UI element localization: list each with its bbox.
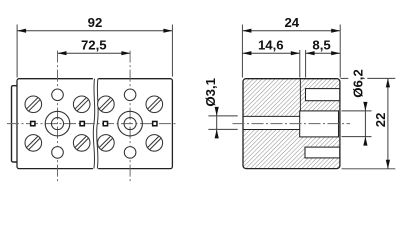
dimension Ø6,2: [342, 69, 372, 145]
break line right: [97, 79, 99, 169]
svg-text:24: 24: [284, 15, 299, 30]
svg-text:8,5: 8,5: [312, 38, 330, 53]
break gap erase: [93, 77, 98, 170]
dimension Ø3,1: [203, 78, 238, 138]
svg-text:22: 22: [373, 113, 388, 128]
bottom slot: [305, 147, 340, 158]
screw channel hole: [242, 116, 299, 129]
dimension 72,5: [58, 38, 131, 56]
housing body section: [243, 79, 340, 169]
dimension 24: [242, 15, 340, 77]
svg-text:Ø6,2: Ø6,2: [351, 69, 366, 98]
internal recess edge: [299, 79, 301, 111]
contact pattern 2: [98, 51, 163, 182]
middle slot / busbar pocket: [300, 111, 339, 137]
dimension 14,6: [242, 38, 299, 78]
dimension 22: [340, 78, 395, 168]
hatching: [243, 79, 340, 169]
dimension 8,5: [306, 38, 341, 78]
dimension 92: [17, 15, 172, 77]
break line left: [93, 79, 95, 169]
svg-text:14,6: 14,6: [258, 38, 284, 53]
contact pattern 1: [25, 51, 90, 182]
svg-text:Ø3,1: Ø3,1: [203, 78, 218, 107]
svg-text:72,5: 72,5: [81, 38, 107, 53]
top slot: [306, 89, 340, 101]
mounting flange left: [12, 86, 18, 162]
housing body front view: [17, 79, 172, 169]
body outline stroke on top: [243, 79, 340, 169]
svg-text:92: 92: [88, 15, 103, 30]
horizontal centerline front view: [7, 123, 178, 125]
horizontal centerline section view: [233, 123, 351, 125]
